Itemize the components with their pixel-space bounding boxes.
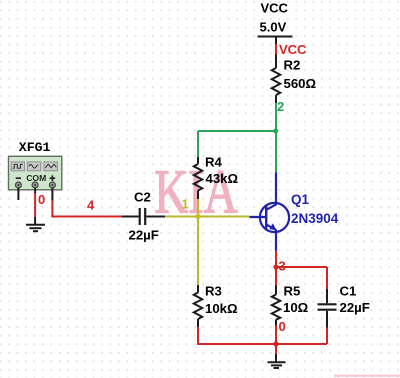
svg-text:XFG1: XFG1: [19, 140, 51, 155]
svg-text:10kΩ: 10kΩ: [205, 301, 238, 316]
wire net 1 down to R3: [197, 217, 199, 286]
svg-text:5.0V: 5.0V: [260, 19, 287, 34]
svg-text:2: 2: [277, 99, 284, 114]
wire net 2 down to Q1 collector: [275, 131, 277, 173]
capacitor C1: [318, 283, 370, 327]
resistor R3: [194, 283, 238, 327]
svg-text:2N3904: 2N3904: [291, 211, 339, 226]
resistor R5: [272, 283, 309, 325]
wire net 0 below R5: [275, 326, 277, 345]
svg-text:22µF: 22µF: [340, 300, 370, 315]
svg-text:R4: R4: [205, 154, 223, 169]
svg-text:0: 0: [38, 192, 45, 207]
svg-text:C1: C1: [340, 283, 357, 298]
svg-text:22µF: 22µF: [129, 228, 159, 243]
resistor R4: [194, 154, 239, 199]
svg-text:R5: R5: [284, 283, 301, 298]
wire net 1 from R4 to junction: [197, 199, 199, 217]
svg-text:R2: R2: [284, 58, 301, 73]
terminal minus stub: [17, 188, 19, 201]
ground bottom: [268, 354, 286, 368]
wire net 4: [52, 201, 122, 217]
svg-text:C2: C2: [134, 190, 151, 205]
wire net 0 to ground: [275, 344, 277, 354]
junction net 3: [273, 264, 278, 269]
capacitor C2: [122, 190, 165, 243]
wire net 2 horizontal: [198, 130, 276, 132]
wire net 1 horizontal to Q1 base: [165, 216, 250, 218]
wire net 3 horizontal to C1: [276, 266, 327, 268]
svg-text:4: 4: [87, 197, 95, 212]
wire net 3 down R5: [275, 267, 277, 286]
svg-text:0: 0: [279, 319, 286, 334]
svg-text:1: 1: [182, 196, 189, 211]
wire net VCC: [275, 44, 277, 55]
wire XFG1 plus pin stub: [51, 188, 53, 201]
wire net 2 vertical from R2: [275, 103, 277, 131]
svg-text:R3: R3: [205, 283, 222, 298]
wire net 3 from emitter: [275, 251, 277, 268]
wire net 3 down C1: [326, 267, 328, 289]
transistor Q1: [250, 173, 339, 251]
wire net 2 down to R4: [197, 131, 199, 157]
svg-text:Q1: Q1: [291, 192, 310, 207]
svg-text:VCC: VCC: [261, 1, 289, 16]
svg-text:3: 3: [279, 258, 286, 273]
resistor R2: [272, 55, 317, 104]
svg-text:43kΩ: 43kΩ: [206, 171, 239, 186]
wire net 0 COM to ground: [34, 193, 36, 217]
junction net 1: [195, 214, 200, 219]
wire net 0 below C1: [326, 328, 328, 345]
svg-text:560Ω: 560Ω: [284, 76, 317, 91]
wire net 0 bottom: [198, 327, 327, 344]
junction net 0: [273, 341, 278, 346]
junction net 2: [273, 129, 278, 134]
wire XFG1 COM pin stub: [34, 188, 36, 194]
power VCC: [258, 1, 293, 45]
svg-text:10Ω: 10Ω: [283, 300, 309, 315]
function generator XFG1: [9, 140, 62, 190]
svg-text:VCC: VCC: [279, 42, 307, 57]
ground XFG1: [26, 217, 45, 231]
